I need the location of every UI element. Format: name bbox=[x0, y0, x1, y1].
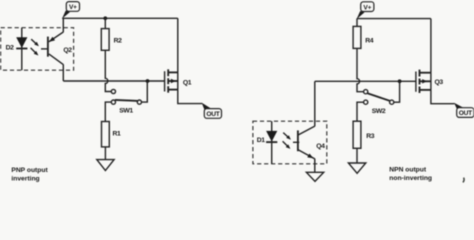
phototransistor Q4 collector (top diagonal) bbox=[298, 126, 315, 135]
svg-text:R4: R4 bbox=[365, 37, 374, 44]
resistor R3 bbox=[353, 121, 375, 148]
light arrow 1 (D2 to Q2) bbox=[31, 39, 39, 46]
wire: R4 bottom lead with hop over gate line, to switch throw bbox=[357, 48, 364, 91]
optocoupler dashed box (right) bbox=[253, 121, 327, 164]
wire: SW1 pole to R1 bbox=[105, 102, 111, 121]
wire: Q2 bottom lead down to node line bbox=[62, 64, 64, 81]
resistor R4 bbox=[353, 26, 374, 48]
Q1 source stub bbox=[168, 89, 178, 91]
power tag V+ (right) bbox=[357, 2, 374, 19]
svg-text:non-inverting: non-inverting bbox=[389, 175, 432, 182]
svg-text:R1: R1 bbox=[113, 130, 122, 137]
SW1 throw contact (lower right) bbox=[137, 100, 141, 104]
SW2 throw contact (lower left) bbox=[364, 100, 368, 104]
SW2 lever bbox=[367, 93, 390, 101]
Q1 drain stub bbox=[168, 71, 178, 73]
ground (left circuit) bbox=[97, 160, 114, 171]
Q3 channel segments bbox=[419, 70, 421, 77]
svg-text:Q3: Q3 bbox=[435, 79, 444, 86]
phototransistor Q4 emitter (bottom, arrow outward) bbox=[298, 150, 315, 159]
svg-text:R3: R3 bbox=[366, 133, 375, 140]
phototransistor Q2 base bar bbox=[47, 37, 49, 57]
optocoupler dashed box (left) bbox=[1, 28, 74, 70]
junction: rail / R2 bbox=[103, 16, 107, 20]
SW1 lever bbox=[115, 100, 138, 101]
ground (under optocoupler) bbox=[306, 172, 323, 181]
Q3 source stub bbox=[420, 89, 431, 91]
wire: SW2 lower-left to R3 bbox=[357, 102, 364, 121]
wire: Q1 drain to rail bbox=[177, 18, 179, 72]
svg-text:Q4: Q4 bbox=[316, 143, 325, 150]
LED D2 bbox=[6, 28, 28, 70]
svg-text:SW2: SW2 bbox=[372, 108, 386, 115]
Q3 gate bar bbox=[415, 72, 417, 92]
wire: Q2 top lead riser to V+ rail bbox=[62, 18, 64, 32]
wire: Q3 source to OUT bbox=[431, 90, 455, 104]
svg-text:D2: D2 bbox=[6, 44, 15, 51]
svg-text:Q2: Q2 bbox=[63, 47, 72, 54]
Q3 body stub with arrow bbox=[420, 80, 431, 82]
wire: R2 bottom lead with hop over gate line, to switch throw bbox=[105, 50, 111, 91]
resistor R2 bbox=[101, 29, 122, 51]
light arrow 1 (D1 to Q4) bbox=[283, 133, 291, 140]
svg-text:D1: D1 bbox=[257, 137, 266, 144]
stray mark bottom right bbox=[463, 178, 464, 183]
Q1 right bus bbox=[177, 72, 179, 89]
phototransistor Q2 base stub bbox=[41, 48, 47, 50]
Q1 channel segments bbox=[167, 69, 169, 76]
SW1 throw contact (upper) bbox=[111, 89, 115, 93]
Q1 body stub with arrow bbox=[168, 80, 178, 82]
output tag OUT (left) bbox=[202, 103, 222, 119]
MOSFET Q1 bbox=[165, 69, 192, 92]
svg-text:NPN output: NPN output bbox=[389, 167, 427, 174]
wire: Q4 collector riser to gate line bbox=[314, 81, 316, 126]
svg-text:V+: V+ bbox=[363, 4, 371, 11]
wire: Q1 source to OUT bbox=[178, 90, 202, 104]
wire: node line from Q2 to Q1 gate bbox=[63, 80, 164, 82]
wire: V+ supply rail (right) bbox=[357, 18, 431, 20]
ground (under R3) bbox=[348, 163, 365, 173]
wire: V+ supply rail (left) bbox=[62, 17, 178, 19]
svg-text:V+: V+ bbox=[69, 4, 77, 11]
wire: SW2 lower-right to gate junction bbox=[394, 81, 400, 102]
junction: gate line / switch wire bbox=[146, 79, 150, 83]
phototransistor Q4 base stub bbox=[293, 141, 299, 143]
junction: gate line / switch wire (right) bbox=[398, 79, 402, 83]
svg-text:R2: R2 bbox=[114, 37, 123, 44]
output tag OUT (right) bbox=[454, 103, 474, 118]
wire: R2 top lead bbox=[104, 18, 106, 28]
wire: R3 to ground bbox=[356, 148, 358, 163]
svg-text:OUT: OUT bbox=[206, 111, 219, 118]
LED D1 bbox=[257, 121, 278, 164]
wire: node line from opto collector to Q3 gate bbox=[315, 80, 416, 82]
resistor R1 bbox=[102, 122, 122, 147]
SW1 pole contact (lower left) bbox=[111, 100, 115, 104]
switch SW2 bbox=[364, 90, 394, 115]
svg-text:inverting: inverting bbox=[11, 175, 39, 182]
Q1 gate bar bbox=[164, 71, 166, 91]
Q3 right bus bbox=[430, 73, 432, 90]
phototransistor Q2 collector (bottom diagonal) bbox=[49, 54, 64, 65]
wire: Q3 drain to rail bbox=[430, 19, 432, 73]
svg-text:SW1: SW1 bbox=[119, 108, 133, 115]
Q3 drain stub bbox=[420, 72, 431, 74]
svg-text:OUT: OUT bbox=[459, 110, 472, 117]
wire: R1 to ground bbox=[104, 147, 106, 160]
svg-text:PNP output: PNP output bbox=[11, 167, 48, 174]
switch SW1 bbox=[111, 89, 141, 114]
wire: R4 top lead bbox=[356, 19, 358, 27]
phototransistor Q4 base bar bbox=[297, 130, 299, 151]
phototransistor Q2 emitter (top, arrow into bar) bbox=[49, 32, 64, 42]
wire: Q4 emitter to ground bbox=[314, 159, 316, 173]
wire: SW1 lower-right to gate junction bbox=[141, 81, 147, 102]
svg-text:Q1: Q1 bbox=[183, 80, 192, 87]
light arrow 2 (D1 to Q4) bbox=[283, 141, 291, 149]
light arrow 2 (D2 to Q2) bbox=[31, 48, 39, 56]
MOSFET Q3 bbox=[416, 70, 443, 93]
SW2 pole contact (upper) bbox=[364, 90, 368, 94]
SW2 throw contact (lower right) bbox=[390, 100, 394, 104]
power tag V+ (left) bbox=[62, 2, 80, 19]
